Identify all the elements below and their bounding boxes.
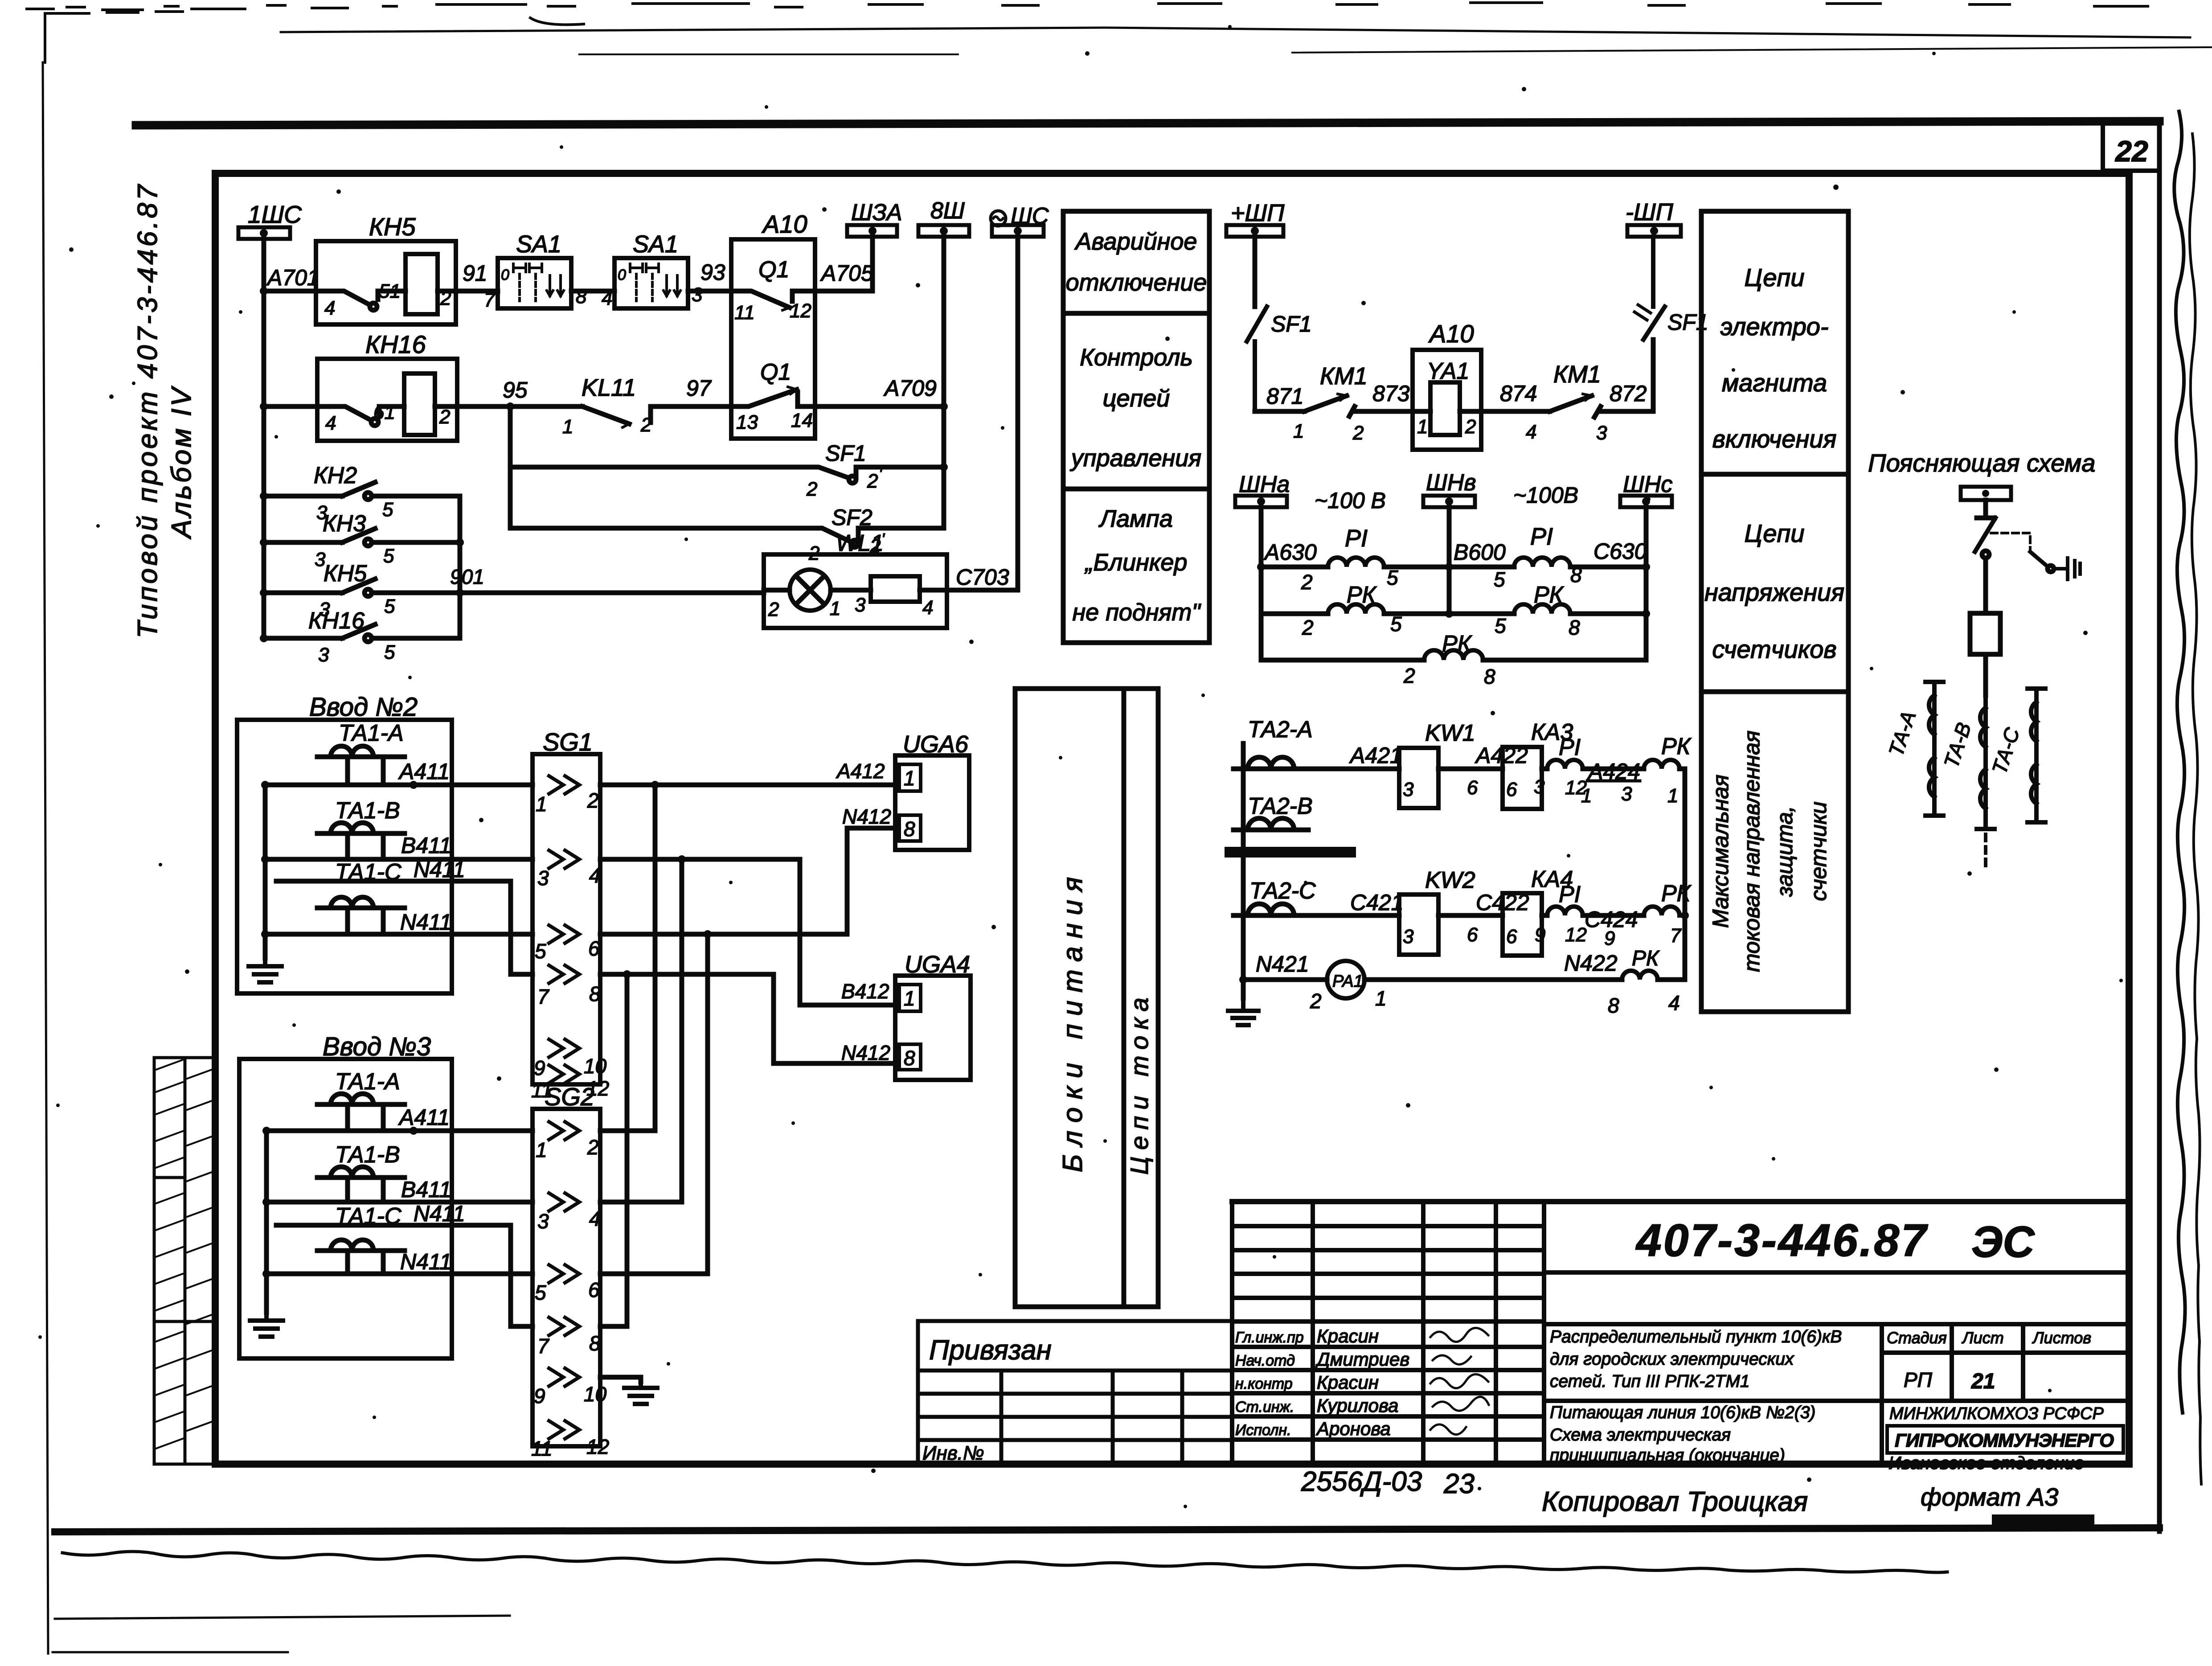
svg-text:С421: С421 [1350, 890, 1404, 915]
svg-text:8: 8 [576, 286, 587, 308]
svg-text:ЭС: ЭС [1971, 1217, 2035, 1266]
svg-text:3: 3 [537, 866, 549, 890]
svg-text:напряжения: напряжения [1704, 578, 1844, 606]
svg-text:2: 2 [587, 789, 599, 812]
svg-text:YA1: YA1 [1427, 358, 1469, 384]
svg-text:901: 901 [450, 565, 484, 588]
box vvod 3 [239, 1059, 452, 1358]
left stamp hatched column [154, 1058, 214, 1464]
title block texts [922, 135, 2148, 1517]
left paper edge line [43, 62, 48, 1654]
svg-text:8: 8 [1570, 563, 1582, 587]
svg-text:Лист: Лист [1962, 1329, 2004, 1347]
breaker (square) [1970, 613, 2000, 654]
svg-text:2: 2 [867, 470, 878, 492]
svg-text:3: 3 [1534, 776, 1545, 798]
svg-text:Красин: Красин [1317, 1372, 1379, 1393]
svg-text:9: 9 [1604, 927, 1615, 949]
svg-text:А701: А701 [266, 265, 320, 290]
svg-text:KL11: KL11 [582, 374, 636, 401]
svg-text:3: 3 [537, 1210, 549, 1233]
svg-text:9: 9 [534, 1384, 545, 1407]
svg-text:2: 2 [1310, 989, 1322, 1013]
relay contact KL11 [582, 406, 731, 424]
wire bus ~ShS vertical [1016, 237, 1020, 590]
svg-text:ТА1-С: ТА1-С [335, 859, 401, 885]
wire down [1977, 500, 1995, 518]
svg-text:Инв.№: Инв.№ [922, 1442, 984, 1464]
svg-text:ТА1-А: ТА1-А [335, 1069, 400, 1095]
dashed mechanical link [1991, 533, 2030, 552]
svg-text:5: 5 [535, 940, 546, 963]
svg-text:407-3-446.87: 407-3-446.87 [1635, 1215, 1928, 1266]
svg-text:UGA6: UGA6 [903, 731, 969, 758]
wire 872 [1601, 340, 1653, 411]
svg-text:А411: А411 [398, 759, 450, 784]
svg-text:KW1: KW1 [1425, 720, 1475, 746]
svg-text:1: 1 [904, 987, 915, 1010]
svg-text:N411: N411 [400, 910, 452, 935]
svg-text:7: 7 [537, 985, 549, 1008]
vvod2 labels [335, 720, 465, 935]
vvod3 labels [335, 1069, 465, 1274]
svg-text:ТА1-В: ТА1-В [335, 798, 400, 824]
svg-text:N411: N411 [400, 1249, 452, 1274]
svg-text:РК: РК [1347, 582, 1377, 608]
svg-text:РК: РК [1632, 947, 1660, 970]
terminal block SG1 [533, 754, 600, 1084]
svg-text:Блоки питания: Блоки питания [1057, 869, 1088, 1173]
svg-text:ШНв: ШНв [1426, 470, 1476, 496]
svg-text:2556Д-03: 2556Д-03 [1301, 1466, 1422, 1497]
svg-text:Цепи: Цепи [1744, 263, 1804, 291]
svg-text:7: 7 [537, 1334, 549, 1358]
breaker SF1 right [1643, 237, 1665, 340]
svg-text:2: 2 [1403, 664, 1415, 687]
svg-text:5: 5 [384, 595, 395, 617]
svg-text:Альбом IV: Альбом IV [166, 386, 197, 540]
transformer TA1-B (vvod3) [317, 1167, 405, 1202]
coil RK (N) [1622, 971, 1658, 980]
lamp WL1 [764, 554, 947, 628]
svg-text:1: 1 [1417, 416, 1428, 438]
current circuit labels [1248, 717, 1692, 1017]
wire A422 [1438, 767, 1503, 771]
coil RK (phase A) [1644, 760, 1679, 769]
legend rotated: Maksimalnaya [1708, 730, 1831, 972]
svg-text:ШНс: ШНс [1623, 472, 1672, 497]
svg-text:формат А3: формат А3 [1921, 1483, 2058, 1511]
svg-text:В600: В600 [1454, 540, 1506, 565]
wire 873 [1355, 409, 1413, 414]
bus ~ShS [991, 211, 1044, 237]
svg-text:Ивановское отделение: Ивановское отделение [1888, 1453, 2084, 1473]
svg-text:А10: А10 [762, 210, 807, 238]
svg-text:4: 4 [922, 597, 933, 619]
svg-text:2: 2 [640, 414, 651, 436]
wire SA1-SA1 [571, 289, 614, 294]
wire C-route to pin7 [276, 881, 533, 974]
svg-text:Гл.инж.пр: Гл.инж.пр [1235, 1329, 1304, 1346]
bus ShNa [1235, 496, 1287, 507]
svg-text:3: 3 [1403, 926, 1414, 948]
svg-text:4: 4 [324, 297, 335, 319]
relay contact KH5 (lamp chain) [260, 589, 268, 597]
coil RK (middle) [1424, 650, 1483, 660]
wire lamp collector [458, 496, 463, 638]
coil RK (phase C) [1644, 907, 1679, 915]
wire to UGA4 pin8 [627, 974, 895, 1063]
svg-text:А422: А422 [1475, 743, 1528, 768]
terminal arrows SG2 [549, 1122, 579, 1439]
corner black mark [1992, 1514, 2094, 1526]
svg-text:Цепи тока: Цепи тока [1125, 991, 1153, 1174]
wire N411 (vvod3) [266, 1272, 533, 1276]
relay contact KH16 [317, 359, 457, 441]
description text [1550, 1327, 1842, 1465]
svg-text:1: 1 [536, 792, 547, 816]
wire ShNa vertical [1259, 507, 1264, 660]
svg-text:SF1: SF1 [825, 441, 866, 466]
svg-text:Привязан: Привязан [929, 1335, 1052, 1366]
svg-text:7: 7 [484, 289, 496, 311]
wire A423 [1542, 767, 1547, 771]
svg-text:4: 4 [1668, 991, 1680, 1014]
svg-text:КН5: КН5 [324, 561, 367, 587]
svg-text:включения: включения [1712, 425, 1837, 453]
svg-text:ГИПРОКОММУНЭНЕРГО: ГИПРОКОММУНЭНЕРГО [1895, 1430, 2114, 1451]
svg-text:Аронова: Аронова [1315, 1418, 1391, 1439]
svg-text:8: 8 [589, 982, 601, 1005]
wire A701 [264, 289, 316, 294]
svg-text:2: 2 [1302, 616, 1314, 639]
svg-text:ТА1-В: ТА1-В [335, 1142, 400, 1168]
svg-text:8: 8 [904, 817, 915, 841]
wire SF1 branch vertical [508, 406, 513, 528]
CT TA-A [1925, 682, 1943, 816]
svg-text:Цепи: Цепи [1744, 519, 1804, 547]
svg-text:4: 4 [1526, 421, 1536, 443]
svg-text:Ввод №2: Ввод №2 [309, 693, 418, 722]
svg-text:РК: РК [1534, 582, 1565, 608]
svg-text:РП: РП [1904, 1368, 1933, 1391]
paper top edge dashes [27, 3, 2148, 25]
relay KW2 [1399, 895, 1438, 955]
wire ShNs vertical [1644, 507, 1649, 660]
svg-text:КН5: КН5 [369, 213, 416, 241]
svg-text:4: 4 [602, 287, 612, 309]
svg-text:WL1: WL1 [836, 530, 884, 556]
wire C424 [1583, 913, 1644, 918]
title block outline [1232, 1202, 2129, 1464]
box vvod 2 [237, 720, 452, 993]
wire from +ShP [1253, 237, 1258, 307]
voltage row labels [1239, 470, 1672, 688]
svg-text:В411: В411 [401, 1177, 451, 1202]
wire vvod2 left drop + ground [263, 785, 268, 958]
svg-text:принципиальная (окончание): принципиальная (окончание) [1550, 1446, 1785, 1465]
wire KH16 row [264, 404, 317, 409]
svg-text:В411: В411 [401, 833, 451, 858]
wire to breaker box [1983, 558, 1988, 613]
outer sheet border top [136, 121, 2159, 125]
svg-text:6: 6 [1506, 779, 1517, 800]
svg-text:8: 8 [904, 1046, 915, 1070]
svg-text:сетей. Тип III РПК-2ТМ1: сетей. Тип III РПК-2ТМ1 [1550, 1372, 1750, 1391]
svg-text:KW2: KW2 [1425, 867, 1475, 893]
svg-text:токовая направленная: токовая направленная [1739, 730, 1764, 972]
wire RK row 3 [1261, 658, 1424, 663]
svg-text:Максимальная: Максимальная [1708, 775, 1733, 928]
wire C-route to pin7 (vvod3) [276, 1225, 533, 1326]
signatures squiggles [1430, 1328, 1489, 1434]
bus ShNs [1620, 496, 1672, 507]
transformer TA2-C [1233, 904, 1308, 915]
svg-text:Исполн.: Исполн. [1235, 1422, 1291, 1439]
wire SG1 row1 to UGA6 pin1 [600, 783, 895, 788]
bus +ShP [1226, 225, 1283, 237]
test block UGA4 [895, 976, 971, 1080]
wire N421 [1243, 977, 1327, 982]
svg-text:3: 3 [1621, 783, 1632, 805]
svg-text:6: 6 [1467, 777, 1478, 799]
svg-text:Нач.отд: Нач.отд [1235, 1352, 1295, 1369]
wire B411 (vvod3) [266, 1200, 533, 1205]
svg-text:А705: А705 [820, 261, 873, 286]
coil RK (A) [1328, 604, 1384, 614]
relay contact KH3 [260, 538, 268, 546]
svg-text:SF2: SF2 [832, 505, 873, 530]
svg-text:2: 2 [1465, 416, 1476, 438]
svg-text:1: 1 [1375, 987, 1387, 1010]
svg-text:2: 2 [808, 542, 819, 564]
relay contact KH16 (lamp chain) [260, 634, 268, 642]
svg-text:22: 22 [2114, 135, 2148, 168]
svg-text:защита,: защита, [1772, 806, 1797, 897]
svg-text:ШЗА: ШЗА [851, 200, 902, 226]
switch SA1 (first) [498, 258, 571, 308]
terminal block SG2 [533, 1109, 600, 1446]
svg-text:КМ1: КМ1 [1320, 363, 1368, 390]
relay KA4 [1503, 893, 1542, 956]
transformer TA1-C (vvod3) [317, 1240, 405, 1274]
ground at SG2 [624, 1382, 657, 1404]
svg-text:5: 5 [384, 641, 395, 663]
svg-text:Распределительный пункт 10(6)к: Распределительный пункт 10(6)кВ [1550, 1327, 1842, 1346]
svg-text:А630: А630 [1263, 540, 1317, 565]
svg-text:4: 4 [325, 412, 336, 434]
svg-text:А10: А10 [1428, 320, 1474, 348]
description / stamp dividers [1544, 1324, 2129, 1464]
svg-text:1: 1 [830, 598, 840, 620]
legend column right: Tsepi [1701, 211, 1848, 1012]
svg-text:1ШС: 1ШС [248, 201, 302, 228]
wire phase A [1294, 767, 1399, 771]
wire SG1 row2 to UGA4 pin1 [600, 859, 895, 1005]
contactor contact KM1 (NO) [1304, 396, 1355, 416]
svg-text:97: 97 [686, 376, 712, 401]
svg-text:А421: А421 [1349, 743, 1402, 768]
wire A411 [265, 783, 533, 788]
svg-text:8: 8 [1569, 616, 1580, 639]
wire link vertical N (SG1-5 / SG2-5) [705, 934, 710, 1274]
block A10 coil YA1 [1413, 350, 1481, 450]
svg-text:ТА2-В: ТА2-В [1248, 793, 1313, 819]
svg-text:РК: РК [1661, 881, 1692, 907]
terminal arrows SG1 [549, 776, 579, 1083]
wire SG2 row5 to ground [600, 1377, 641, 1382]
outer sheet border right [2157, 121, 2162, 1531]
bottom-left paper lines [53, 1616, 510, 1652]
svg-text:2: 2 [1301, 570, 1313, 594]
svg-text:РА1: РА1 [1332, 972, 1363, 991]
bus 1ShS [238, 227, 290, 239]
svg-text:2: 2 [439, 406, 450, 428]
svg-text:1: 1 [1581, 785, 1592, 807]
svg-text:Q1: Q1 [758, 257, 789, 283]
wire link vertical A (SG1-1 / SG2-1) [653, 785, 658, 1131]
paper bottom torn edge [62, 1551, 1947, 1572]
svg-text:8: 8 [589, 1332, 601, 1355]
svg-text:SA1: SA1 [633, 231, 678, 258]
wire N row [1364, 977, 1622, 982]
svg-text:Лампа: Лампа [1098, 505, 1173, 532]
paper thin rule top [281, 28, 2190, 37]
svg-text:2: 2 [806, 478, 817, 500]
svg-text:3: 3 [1596, 422, 1607, 444]
svg-text:3: 3 [692, 284, 703, 306]
svg-text:2: 2 [587, 1136, 599, 1159]
legend column: Avariynoe otklyuchenie [1063, 211, 1209, 643]
wire 93 [688, 289, 731, 294]
svg-text:5: 5 [1495, 614, 1506, 637]
svg-text:4: 4 [589, 864, 601, 887]
svg-text:Стадия: Стадия [1887, 1329, 1947, 1347]
wire RK row 2 [1261, 611, 1328, 616]
svg-text:ТА1-С: ТА1-С [335, 1203, 401, 1229]
wire B411 [265, 857, 533, 862]
svg-text:КН16: КН16 [308, 608, 365, 634]
svg-text:N411: N411 [414, 1201, 465, 1226]
wire below breaker [1983, 654, 1988, 695]
svg-text:9: 9 [534, 1056, 545, 1079]
svg-text:7: 7 [1670, 925, 1682, 947]
svg-text:1: 1 [1293, 420, 1304, 442]
CT TA-C [2028, 689, 2045, 822]
svg-text:872: 872 [1610, 381, 1647, 406]
wire phase C [1294, 913, 1399, 918]
svg-text:счетчиков: счетчиков [1712, 635, 1836, 663]
svg-text:Листов: Листов [2032, 1329, 2091, 1347]
svg-text:2: 2 [440, 287, 451, 309]
svg-text:N422: N422 [1564, 951, 1618, 976]
svg-text:N411: N411 [414, 857, 465, 882]
svg-text:SA1: SA1 [516, 231, 561, 258]
svg-text:5: 5 [1387, 566, 1398, 589]
labels closing coil row [1231, 199, 1708, 444]
coil PI (phase C) [1547, 907, 1583, 915]
svg-text:С422: С422 [1476, 890, 1529, 915]
svg-text:SF1: SF1 [1271, 312, 1312, 336]
title block left grid rows [1232, 1226, 1544, 1440]
coil PI (C) [1514, 558, 1570, 567]
svg-text:электро-: электро- [1720, 312, 1828, 341]
svg-text:РК: РК [1442, 631, 1473, 657]
bus of explanatory scheme [1961, 487, 2011, 500]
wire voltage row A630-B600-C630 [1261, 565, 1328, 570]
coil PI (A) [1328, 558, 1384, 567]
svg-text:874: 874 [1500, 381, 1537, 406]
breaker SF1 left [1247, 307, 1267, 411]
top-left labels [248, 198, 1049, 666]
coil RK (C) [1514, 604, 1570, 614]
svg-text:3: 3 [855, 594, 866, 616]
transformer TA2-A [1233, 757, 1308, 769]
svg-text:В412: В412 [841, 980, 889, 1003]
svg-text:51: 51 [379, 280, 401, 302]
svg-text:3: 3 [318, 644, 329, 666]
svg-text:6: 6 [588, 1278, 600, 1301]
relay KA3 [1503, 747, 1542, 809]
svg-text:РI: РI [1559, 882, 1581, 907]
svg-text:0: 0 [501, 267, 509, 283]
svg-text:12: 12 [586, 1435, 609, 1458]
sheet number box 22 [2103, 123, 2159, 171]
svg-text:РI: РI [1530, 523, 1553, 550]
wire 91 [456, 289, 498, 294]
svg-text:14: 14 [791, 410, 813, 431]
svg-text:Дмитриев: Дмитриев [1315, 1349, 1409, 1370]
svg-text:2: 2 [768, 599, 779, 620]
outer sheet border bottom [55, 1528, 2159, 1532]
wire N411 [265, 932, 533, 937]
svg-text:ШС: ШС [1011, 203, 1049, 229]
contactor contact KM1 (second) [1550, 396, 1601, 417]
svg-text:N412: N412 [842, 805, 891, 828]
svg-text:РК: РК [1661, 734, 1692, 759]
svg-text:61: 61 [373, 402, 395, 423]
wire phase B (heavy bar) [1230, 847, 1351, 858]
svg-text:21: 21 [1971, 1370, 1995, 1393]
svg-text:N421: N421 [1256, 952, 1309, 977]
svg-text:ТА1-А: ТА1-А [339, 720, 404, 746]
relay KW1 [1399, 748, 1438, 808]
wire ShNv vertical [1447, 507, 1452, 614]
wire vvod3 left drop + ground [264, 1131, 269, 1313]
wire C422 [1438, 913, 1503, 918]
paper right torn edge [2174, 111, 2185, 1413]
breaker contact SF1 [510, 467, 848, 478]
svg-text:ШНа: ШНа [1239, 472, 1290, 497]
svg-text:9: 9 [1535, 924, 1545, 946]
CT TA-B [1977, 695, 1995, 866]
wire A424 [1583, 767, 1644, 771]
svg-text:ТА2-А: ТА2-А [1248, 717, 1313, 743]
wire bus 1ShS vertical [262, 239, 266, 638]
svg-text:2: 2 [1352, 422, 1364, 444]
earthing switch [2030, 552, 2048, 567]
svg-text:0: 0 [618, 267, 626, 283]
top-left corner mark [45, 12, 183, 62]
coil PI (phase A) [1547, 760, 1583, 769]
title block left grid columns [1313, 1202, 1544, 1464]
wire TA2 primary chain [1241, 743, 1246, 998]
svg-text:С703: С703 [956, 565, 1009, 590]
svg-text:8: 8 [1484, 665, 1495, 688]
svg-text:SG2: SG2 [545, 1083, 594, 1111]
svg-text:': ' [879, 465, 882, 483]
svg-text:Типовой проект 407-3-446.87: Типовой проект 407-3-446.87 [132, 182, 163, 638]
